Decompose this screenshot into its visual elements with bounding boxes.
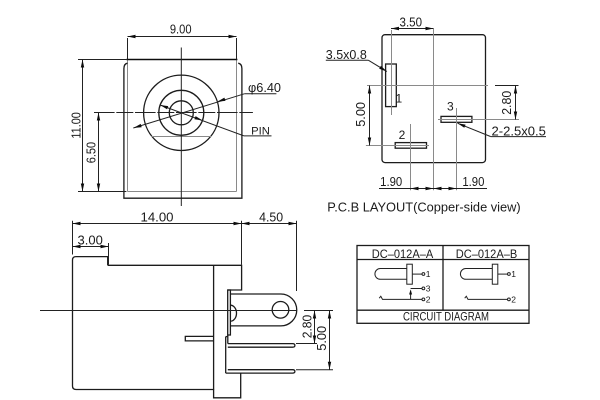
svg-text:11.00: 11.00 [70, 112, 84, 138]
svg-text:14.00: 14.00 [141, 210, 174, 224]
svg-text:1.90: 1.90 [462, 175, 484, 189]
svg-text:1: 1 [511, 269, 516, 279]
svg-text:6.50: 6.50 [85, 142, 99, 163]
svg-text:2: 2 [511, 294, 516, 304]
svg-text:3: 3 [447, 100, 454, 114]
svg-text:1: 1 [426, 269, 431, 279]
svg-text:9.00: 9.00 [170, 23, 192, 37]
svg-text:2: 2 [426, 294, 431, 304]
svg-text:3: 3 [426, 283, 431, 293]
svg-text:PIN: PIN [251, 125, 270, 137]
svg-text:1.90: 1.90 [380, 175, 402, 189]
svg-text:3.50: 3.50 [400, 16, 423, 30]
svg-text:3.00: 3.00 [78, 233, 103, 247]
svg-text:DC–012A–B: DC–012A–B [456, 248, 518, 261]
svg-text:2.80: 2.80 [500, 91, 514, 115]
svg-text:CIRCUIT DIAGRAM: CIRCUIT DIAGRAM [403, 311, 489, 324]
svg-text:P.C.B LAYOUT(Copper-side view): P.C.B LAYOUT(Copper-side view) [327, 200, 520, 215]
svg-text:φ6.40: φ6.40 [248, 81, 281, 95]
svg-text:1: 1 [396, 91, 403, 105]
svg-text:4.50: 4.50 [259, 210, 283, 224]
svg-text:5.00: 5.00 [315, 326, 329, 351]
svg-text:DC–012A–A: DC–012A–A [372, 248, 434, 261]
svg-text:5.00: 5.00 [354, 102, 368, 127]
svg-text:2: 2 [399, 128, 406, 142]
svg-text:2.80: 2.80 [301, 315, 315, 339]
